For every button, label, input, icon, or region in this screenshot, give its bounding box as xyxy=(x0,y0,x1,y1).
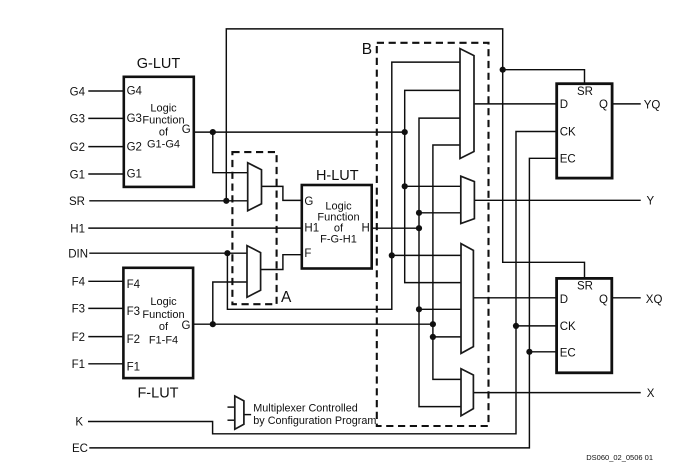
svg-text:G3: G3 xyxy=(70,114,85,126)
svg-text:G-LUT: G-LUT xyxy=(137,56,181,72)
wire F3 input xyxy=(89,307,123,309)
junction DIN rail to mux B3 xyxy=(389,252,395,258)
wire legend mux input stubs xyxy=(228,406,235,408)
wire G1 input xyxy=(89,173,124,175)
junction G' rail to mux B2 xyxy=(402,183,408,189)
svg-text:Function: Function xyxy=(142,309,184,321)
svg-text:K: K xyxy=(75,417,83,429)
wire F1 input xyxy=(89,363,123,365)
svg-text:F: F xyxy=(304,248,311,260)
wire G' rail xyxy=(405,90,461,282)
wire FF2 Q to XQ xyxy=(612,297,640,299)
wire F-LUT output F' xyxy=(193,323,433,325)
wire K clock net to CK pins xyxy=(89,132,557,434)
F-LUT U2 box xyxy=(123,268,193,378)
wire mux B1 output to FF1 D xyxy=(474,103,557,105)
svg-text:G: G xyxy=(182,320,191,332)
wire H' rail branch to mux B3 xyxy=(419,308,461,310)
svg-text:Q: Q xyxy=(599,99,608,111)
svg-text:G1-G4: G1-G4 xyxy=(147,139,180,151)
svg-text:EC: EC xyxy=(560,348,576,360)
svg-text:B: B xyxy=(362,41,372,58)
wire mux B4 output to X xyxy=(473,392,640,394)
wire SR input to mux A1 xyxy=(90,200,248,202)
svg-text:F3: F3 xyxy=(72,304,85,316)
junction F' rail to mux B3 xyxy=(430,334,436,340)
dashed box A xyxy=(232,152,276,304)
wire G' rail branch to mux B2 xyxy=(405,185,461,187)
svg-text:Logic: Logic xyxy=(325,200,352,212)
svg-text:YQ: YQ xyxy=(644,99,661,111)
flip-flop FF2 (XQ) box xyxy=(557,278,612,372)
wire G3 input xyxy=(89,117,124,119)
svg-text:F1: F1 xyxy=(127,361,140,373)
svg-text:A: A xyxy=(281,289,292,306)
wire G-LUT output G' xyxy=(194,131,405,133)
wire G4 input xyxy=(89,90,124,92)
wire DIN input to mux A2 xyxy=(90,252,247,254)
svg-text:F-LUT: F-LUT xyxy=(137,386,178,402)
mux B4 (X output select) xyxy=(461,369,473,416)
svg-text:G: G xyxy=(304,196,313,208)
svg-text:EC: EC xyxy=(560,154,576,166)
svg-text:D: D xyxy=(560,294,568,306)
svg-text:H: H xyxy=(362,222,370,234)
junction on F' at mux A branch xyxy=(210,321,216,327)
wire FF1 Q to YQ xyxy=(612,103,640,105)
wire mux B2 output to Y xyxy=(474,199,640,201)
junction EC branch FF2 xyxy=(526,349,532,355)
mux A2 (lower, DIN/F' select) xyxy=(247,246,261,298)
svg-text:X: X xyxy=(647,388,655,400)
svg-text:F1-F4: F1-F4 xyxy=(149,335,178,347)
svg-text:Y: Y xyxy=(647,196,655,208)
svg-text:Multiplexer Controlled: Multiplexer Controlled xyxy=(253,402,357,414)
wire CK branch to FF2 xyxy=(516,325,557,327)
svg-text:G3: G3 xyxy=(127,113,142,125)
svg-text:by Configuration Program: by Configuration Program xyxy=(253,415,376,427)
H-LUT U3 box xyxy=(302,185,372,269)
junction H line to rail xyxy=(416,225,422,231)
svg-text:CK: CK xyxy=(560,127,576,139)
legend mux symbol xyxy=(235,396,244,429)
wire G2 input xyxy=(89,146,124,148)
wire F4 input xyxy=(89,280,123,282)
svg-text:H-LUT: H-LUT xyxy=(316,168,359,184)
dashed box B xyxy=(377,43,489,426)
svg-text:DS060_02_0506 01: DS060_02_0506 01 xyxy=(586,453,653,462)
svg-text:G: G xyxy=(182,124,191,136)
svg-text:F-G-H1: F-G-H1 xyxy=(320,234,357,246)
wire F' rail xyxy=(433,145,461,379)
wire mux A1 output to H-LUT G pin xyxy=(262,186,302,200)
wire EC branch to FF2 xyxy=(529,351,556,353)
wire H-LUT output H xyxy=(372,227,419,229)
junction H' rail to mux B2 xyxy=(416,210,422,216)
wire mux A2 output to H-LUT F pin xyxy=(261,255,302,270)
junction F' line to rail xyxy=(430,321,436,327)
svg-text:H1: H1 xyxy=(304,222,319,234)
wire H1 input to H-LUT xyxy=(89,227,302,229)
junction H' rail to mux B3 xyxy=(416,306,422,312)
junction on G' at mux A branch xyxy=(210,129,216,135)
svg-text:Logic: Logic xyxy=(150,296,177,308)
wire H' rail branch to mux B2 xyxy=(419,212,461,214)
wire G' branch to mux A1 xyxy=(213,132,248,173)
svg-text:XQ: XQ xyxy=(646,294,663,306)
mux B1 (FF1 D source select) xyxy=(460,49,474,159)
svg-text:of: of xyxy=(334,222,344,234)
wire F' branch to mux A2 xyxy=(213,282,247,324)
mux A1 (upper, G'/SR select) xyxy=(248,163,262,211)
wire DIN rail branch to mux B3 xyxy=(392,254,461,256)
junction CK branch FF2 xyxy=(513,323,519,329)
wire EC net to EC pins xyxy=(90,158,557,448)
wire mux B3 output to FF2 D xyxy=(473,297,556,299)
wire H' rail xyxy=(419,118,461,407)
svg-text:F2: F2 xyxy=(72,332,85,344)
svg-text:SR: SR xyxy=(577,86,593,98)
svg-text:F4: F4 xyxy=(127,279,141,291)
wire F2 input xyxy=(89,336,123,338)
svg-text:CK: CK xyxy=(560,321,576,333)
svg-text:G2: G2 xyxy=(127,141,142,153)
svg-text:F4: F4 xyxy=(72,277,86,289)
mux B2 (Y output select) xyxy=(461,176,475,223)
svg-text:EC: EC xyxy=(72,443,88,455)
svg-text:of: of xyxy=(159,127,169,139)
svg-text:Logic: Logic xyxy=(150,103,177,115)
wire legend mux output stub xyxy=(244,414,251,416)
svg-text:SR: SR xyxy=(577,281,593,293)
junction SR rail branch xyxy=(500,67,506,73)
svg-text:H1: H1 xyxy=(70,223,85,235)
svg-text:DIN: DIN xyxy=(68,249,88,261)
svg-text:G1: G1 xyxy=(127,169,142,181)
svg-text:G2: G2 xyxy=(70,142,85,154)
svg-text:SR: SR xyxy=(69,196,85,208)
svg-text:G1: G1 xyxy=(70,169,85,181)
mux B3 (FF2 D source select) xyxy=(461,244,473,354)
wire SR net top rail xyxy=(226,29,584,201)
wire SR branch to FF2 xyxy=(503,70,585,279)
svg-text:D: D xyxy=(560,99,568,111)
svg-text:Q: Q xyxy=(599,294,608,306)
svg-text:F1: F1 xyxy=(72,359,85,371)
svg-text:G4: G4 xyxy=(70,86,86,98)
flip-flop FF1 (YQ) box xyxy=(557,84,612,178)
svg-text:F3: F3 xyxy=(127,306,140,318)
svg-text:G4: G4 xyxy=(127,86,143,98)
wire DIN rail xyxy=(392,62,460,309)
junction G' line to rail xyxy=(402,129,408,135)
junction on SR line xyxy=(223,198,229,204)
svg-text:Function: Function xyxy=(142,115,184,127)
svg-text:F2: F2 xyxy=(127,334,140,346)
junction on DIN line xyxy=(224,250,230,256)
G-LUT U1 box xyxy=(124,77,194,187)
svg-text:of: of xyxy=(159,321,169,333)
wire DIN branch to rail xyxy=(227,253,391,309)
wire F' rail branch to mux B3 xyxy=(433,336,461,338)
